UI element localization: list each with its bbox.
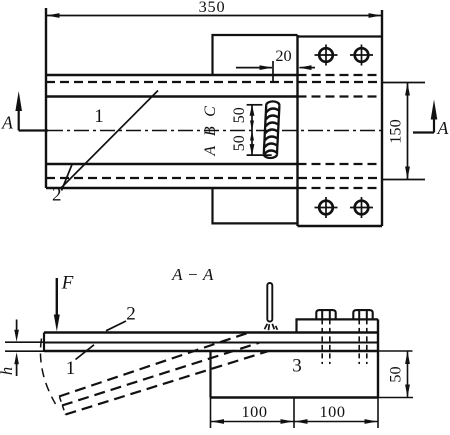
svg-text:20: 20 [275, 46, 291, 65]
svg-text:A: A [1, 113, 13, 133]
svg-text:C: C [202, 106, 219, 117]
svg-text:F: F [61, 273, 74, 294]
svg-text:B: B [202, 126, 219, 136]
svg-text:50: 50 [231, 107, 248, 123]
svg-text:2: 2 [52, 185, 62, 206]
svg-text:2: 2 [126, 304, 136, 325]
svg-text:100: 100 [242, 402, 268, 421]
svg-text:A: A [202, 146, 219, 157]
svg-text:1: 1 [94, 106, 104, 127]
svg-text:150: 150 [386, 119, 405, 143]
svg-text:350: 350 [199, 0, 226, 16]
svg-text:50: 50 [386, 366, 405, 382]
svg-text:3: 3 [292, 356, 302, 377]
svg-text:h: h [0, 367, 16, 375]
svg-text:A−A: A−A [171, 265, 218, 284]
svg-text:50: 50 [231, 135, 248, 151]
svg-text:A: A [437, 118, 449, 138]
svg-text:1: 1 [66, 358, 76, 379]
svg-text:100: 100 [320, 402, 346, 421]
